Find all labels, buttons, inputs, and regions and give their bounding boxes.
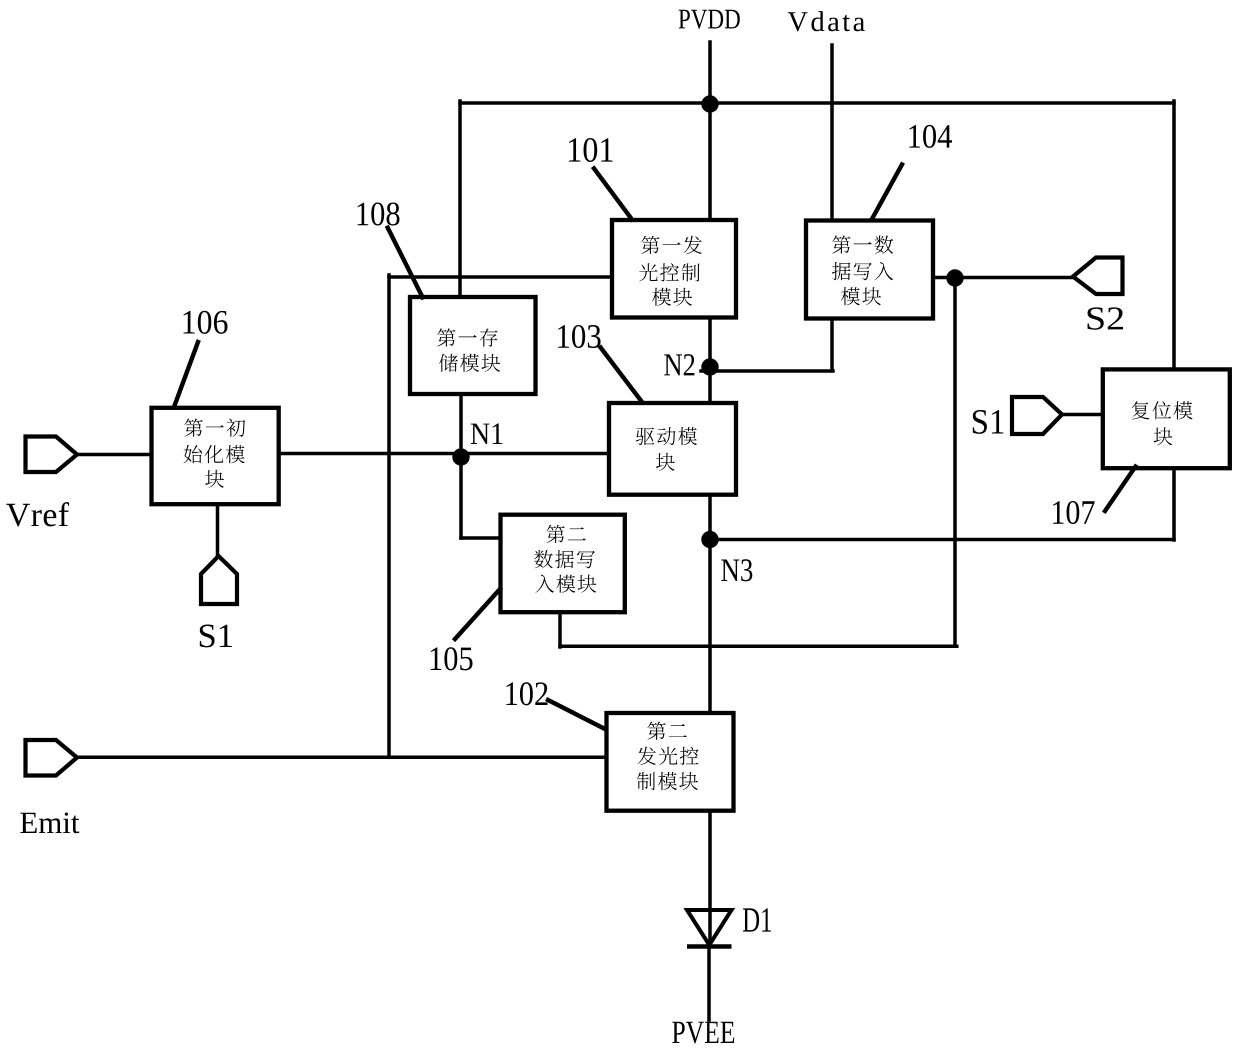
wire module 101 to module 103 through N2 [708,318,712,404]
label node N2 [664,354,694,375]
label 104 [909,125,952,148]
wire PVDD top rail [460,101,1174,105]
label PVEE supply [672,1022,734,1044]
module 106 first initialization block [152,408,279,504]
module 105 second data write block [501,515,625,613]
label diode D1 [743,908,771,931]
wire node N1 down [459,457,463,538]
leader line 105 [455,589,500,639]
wire node N3 row to right rail [710,538,1174,542]
label 103 [558,325,601,348]
leader line 108 [388,228,423,298]
wire into module 105 left [461,536,501,540]
label 108 [357,202,399,225]
wire S1 terminal to module 107 [1062,413,1103,417]
label node N3 [721,559,752,581]
leader line 106 [174,342,198,407]
label Emit [20,812,79,833]
module 102 second emission control block [607,713,734,811]
junction S2 branch [946,269,963,286]
leader line 103 [601,348,642,403]
module 103 driving block [609,403,736,495]
label Vdata [788,11,865,31]
wire PVDD drop to module 101 [708,42,712,220]
leader line 101 [594,169,632,220]
diode D1 [687,910,732,947]
label S2 [1088,307,1123,329]
label S1 lower [200,625,232,648]
label 101 [569,138,613,162]
wire module 108 row to module 101 [389,275,612,279]
input terminal S2 [1073,258,1123,295]
wire module 102 to diode D1 [708,811,712,946]
input terminal S1 lower [201,556,237,604]
input terminal Emit [26,740,78,776]
wire module 104 bottom to N2 branch [830,319,834,371]
junction node N3 [701,531,718,548]
wire left rail down to module 108 [458,101,462,297]
label 107 [1053,501,1095,524]
wire module 108 to node N1 [459,394,463,462]
wire module 103 to module 102 through N3 [708,495,712,713]
label Vref [6,502,69,526]
leader line 107 [1105,467,1136,512]
junction node N1 [452,448,469,465]
wire node N2 branch to Vdata column [701,369,833,373]
leader line 102 [548,700,605,729]
module 108 first storage block [410,297,536,394]
label 106 [183,311,227,334]
wire module 107 bottom to N3 row [1172,468,1176,540]
label node N1 [471,423,503,444]
wire Vdata drop to module 104 [830,45,834,221]
wire left long rail to Emit row [387,275,391,757]
label 102 [506,682,547,705]
label 105 [431,647,473,670]
wire module 104 to S2 terminal [933,276,1073,280]
module 104 first data write block [806,221,933,319]
junction node N2 [701,358,718,375]
module 107 reset block [1103,369,1230,468]
wire S2 branch down [953,278,957,646]
module 101 first emission control block [612,220,736,318]
label PVDD supply [679,10,740,29]
wire right rail down to module 107 [1172,101,1176,369]
wire bottom branch row to module 105 [560,644,957,648]
junction PVDD rail [701,95,718,112]
label S1 right [973,410,1004,434]
wire Vref terminal to module 106 [77,453,152,457]
input terminal Vref [26,437,78,473]
leader line 104 [873,165,903,219]
wire module 105 bottom stub [558,612,562,647]
wire node N1 row 106 to 103 [279,452,609,456]
wire module 106 to S1 terminal [216,504,220,556]
input terminal S1 right [1012,397,1062,434]
wire Emit terminal to module 102 [78,755,607,759]
wire diode D1 to PVEE [707,947,711,1020]
